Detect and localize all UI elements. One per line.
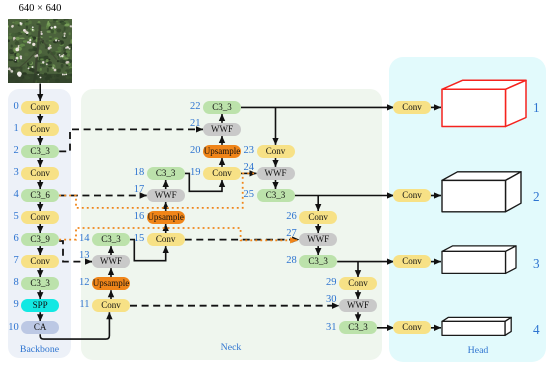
wire 15 to 16 (165, 224, 167, 233)
Head label (430, 345, 526, 356)
block 16 Upsample (147, 211, 185, 224)
block 4 C3_6 (21, 189, 59, 202)
input photo (apple tree 640x640) (8, 19, 72, 83)
block 27 WWF (299, 233, 337, 246)
feature map box 1 (red) (442, 80, 526, 126)
wire block 5 to 6 (39, 224, 41, 233)
block 3 Conv (21, 167, 59, 180)
wire 27 to 28 (317, 246, 319, 255)
feature map box 2 (442, 172, 521, 212)
wire branch down to 29 Conv (357, 262, 359, 278)
block 2 C3_3 (21, 145, 59, 158)
head scale label 2 (533, 189, 540, 205)
wire 18 C3_3 to 19 Conv (185, 173, 222, 191)
head block Conv (393, 255, 431, 268)
block 8 C3_3 (21, 277, 59, 290)
block 21 WWF (203, 123, 241, 136)
block 24 WWF (257, 167, 295, 180)
label 13 (75, 250, 90, 262)
wire block 2 to 3 (39, 158, 41, 167)
backbone panel (8, 89, 71, 358)
dashed skip 2 C3_3 to 21 WWF (59, 129, 203, 151)
block 22 C3_3 (203, 101, 241, 114)
dashed skip 6 C3_9 to 13 WWF (59, 241, 92, 262)
head scale label 4 (533, 322, 540, 338)
head block Conv (393, 189, 431, 202)
block 11 Conv (92, 299, 130, 312)
label 5 (4, 211, 19, 223)
head panel (389, 57, 546, 362)
label 11 (75, 299, 90, 311)
wire branch down to 23 Conv (275, 107, 277, 144)
wire 17 to 18 (165, 180, 167, 189)
label 15 (129, 233, 144, 245)
label 21 (186, 118, 201, 130)
wire 26 to 27 (317, 224, 319, 233)
wire block 4 to 5 (39, 202, 41, 211)
block 30 WWF (339, 299, 377, 312)
label 8 (4, 277, 19, 289)
wire block 1 to 2 (39, 136, 41, 145)
block 25 C3_3 (257, 189, 295, 202)
label 28 (282, 255, 297, 267)
label 26 (282, 211, 297, 223)
block 18 C3_3 (147, 167, 185, 180)
wire head Conv to box (429, 195, 441, 197)
wire 23 to 24 (275, 158, 277, 167)
block 29 Conv (339, 277, 377, 290)
label 12 (75, 277, 90, 289)
wire block 10 CA to 11 Conv (40, 312, 109, 339)
block 5 Conv (21, 211, 59, 224)
orange skip 4 C3_6 to 24 WWF (59, 173, 254, 208)
feature map box 3 (442, 246, 516, 274)
label 16 (129, 211, 144, 223)
block 23 Conv (257, 145, 295, 158)
label 25 (239, 189, 254, 201)
label 17 (129, 184, 144, 196)
block 7 Conv (21, 255, 59, 268)
wire block 0 to 1 (39, 114, 41, 123)
label 18 (129, 167, 144, 179)
Backbone label (8, 344, 71, 355)
block 17 WWF (147, 189, 185, 202)
block 6 C3_9 (21, 233, 59, 246)
block 12 Upsample (92, 277, 130, 290)
label 30 (322, 294, 337, 306)
wire 19 to 20 (221, 158, 223, 167)
label 0 (4, 101, 19, 113)
wire 24 to 25 (275, 180, 277, 189)
block 13 WWF (92, 255, 130, 268)
label 3 (4, 167, 19, 179)
neck panel (81, 89, 382, 360)
wire block 8 to 9 (39, 290, 41, 299)
label 22 (186, 101, 201, 113)
wire 30 to 31 (357, 312, 359, 321)
dashed skip 11 Conv to 30 WWF (130, 305, 339, 307)
feature map box 4 (442, 317, 511, 335)
wire 19 Conv to 24 WWF (241, 172, 257, 174)
wire 16 to 17 (165, 202, 167, 211)
block 26 Conv (299, 211, 337, 224)
label 14 (75, 233, 90, 245)
wire branch down to 26 Conv (317, 196, 319, 212)
block 28 C3_3 (299, 255, 337, 268)
wire block 6 to 7 (39, 246, 41, 255)
label 9 (4, 299, 19, 311)
wire 11 to 12 (110, 290, 112, 299)
wire 13 to 14 (110, 246, 112, 255)
label 20 (186, 145, 201, 157)
wire block 7 to 8 (39, 268, 41, 277)
wire head Conv to box (429, 327, 441, 329)
label 10 (4, 322, 19, 334)
label 7 (4, 255, 19, 267)
wire photo to block 0 (39, 84, 41, 101)
orange skip 6 C3_9 to 27 WWF (59, 228, 297, 240)
wire head Conv to box (429, 106, 441, 108)
head block Conv (393, 321, 431, 334)
label 27 (282, 228, 297, 240)
block 20 Upsample (203, 145, 241, 158)
label 29 (322, 277, 337, 289)
label 31 (322, 322, 337, 334)
wire block 9 to 10 (39, 312, 41, 321)
head scale label 1 (533, 100, 540, 116)
label 19 (186, 167, 201, 179)
wire 12 to 13 (110, 268, 112, 277)
wire 31 C3_3 to head Conv P5 (377, 327, 394, 329)
label 4 (4, 189, 19, 201)
Neck label (81, 342, 382, 353)
label 2 (4, 145, 19, 157)
dashed skip 4 C3_6 to 17 WWF (59, 195, 147, 197)
block 10 CA (21, 321, 59, 334)
block 9 SPP (21, 299, 59, 312)
label 23 (239, 145, 254, 157)
wire head Conv to box (429, 261, 441, 263)
block 14 C3_3 (92, 233, 130, 246)
wire 25 C3_3 to head Conv P3 (295, 195, 395, 197)
block 19 Conv (203, 167, 241, 180)
label 24 (239, 162, 254, 174)
wire 21 to 22 (221, 114, 223, 123)
wire 28 C3_3 to head Conv P4 (337, 261, 394, 263)
input size label (8, 3, 72, 14)
dashed skip 15 Conv to 27 WWF (185, 239, 300, 241)
block 1 Conv (21, 123, 59, 136)
label 1 (4, 123, 19, 135)
block 15 Conv (147, 233, 185, 246)
wire 22 C3_3 to head Conv P2 (241, 106, 394, 108)
wire block 3 to 4 (39, 180, 41, 189)
block 31 C3_3 (339, 321, 377, 334)
head block Conv (393, 101, 431, 114)
wire 29 to 30 (357, 290, 359, 299)
wire 20 to 21 (221, 136, 223, 145)
head scale label 3 (533, 256, 540, 272)
label 6 (4, 233, 19, 245)
wire 14 C3_3 to 15 Conv (130, 240, 166, 261)
block 0 Conv (21, 101, 59, 114)
